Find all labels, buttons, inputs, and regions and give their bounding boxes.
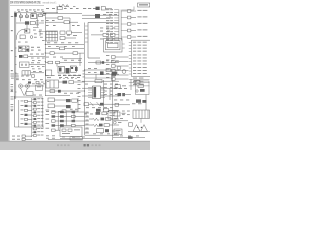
relay K1 — [31, 14, 37, 19]
resistor R14 — [89, 118, 119, 121]
fuse F1 — [19, 54, 45, 58]
wire — [85, 133, 120, 135]
footer label box — [70, 137, 83, 140]
fuse F3 — [25, 20, 44, 25]
capacitor C1 — [18, 27, 57, 42]
wire — [85, 70, 112, 79]
wire bus center — [84, 23, 86, 136]
resistor R4 — [60, 31, 82, 34]
wire — [85, 70, 119, 74]
page bottom shadow — [0, 141, 150, 142]
control box U4 — [46, 80, 59, 88]
wire — [60, 137, 100, 139]
wire — [78, 80, 120, 109]
fuse F2 — [95, 14, 117, 18]
page background — [0, 0, 150, 150]
label text — [46, 6, 79, 9]
terminal rows — [129, 78, 150, 86]
resistor R15 — [89, 124, 119, 133]
node labels row — [17, 9, 44, 12]
wire — [45, 42, 84, 47]
wire top run — [16, 13, 58, 15]
relay K10 — [85, 111, 118, 133]
pin labels column — [106, 9, 119, 43]
resistor column right — [121, 10, 147, 39]
label text — [16, 79, 44, 83]
shield box U2 — [104, 39, 125, 53]
heater grid box — [133, 110, 150, 118]
ecu outline — [85, 23, 119, 59]
relay K6 — [83, 60, 120, 77]
wire loop — [136, 81, 150, 95]
relay K9 — [96, 109, 119, 112]
ic U5 — [88, 80, 105, 110]
label text — [83, 8, 96, 9]
wire — [113, 136, 145, 139]
title text — [10, 0, 57, 4]
transistor Q2 — [141, 125, 148, 132]
connector grid J3 — [46, 31, 58, 41]
note text — [11, 58, 45, 79]
motor M1 — [18, 84, 44, 88]
resistor bank R20-R24 — [46, 110, 85, 132]
bottom margin strip — [0, 142, 150, 151]
resistor bank R10-R17 — [21, 98, 44, 136]
label text — [113, 111, 141, 127]
label box — [122, 3, 150, 10]
connector cluster — [115, 66, 126, 74]
relay K12 — [25, 29, 42, 33]
label text — [100, 28, 115, 32]
wire — [45, 90, 84, 96]
wire — [11, 95, 44, 100]
relay K5 — [96, 7, 113, 10]
wire bend — [16, 29, 25, 40]
wire trunk — [119, 10, 121, 41]
left margin strip — [0, 0, 10, 142]
wire bus right — [11, 98, 43, 127]
motor M2 — [11, 83, 46, 92]
transistor Q1 — [133, 125, 140, 132]
resistor R2 — [57, 4, 69, 13]
resistor R3 — [45, 17, 70, 20]
relay K2 — [19, 46, 41, 52]
label text — [100, 38, 115, 41]
switch S1 — [16, 71, 44, 77]
label text — [46, 57, 82, 59]
label text — [46, 20, 80, 26]
terminal strip — [46, 75, 81, 78]
wire — [82, 15, 119, 18]
wire — [114, 127, 150, 135]
wire bus left — [14, 12, 16, 100]
terminal post — [11, 13, 17, 17]
wire — [16, 18, 27, 29]
capacitor C2 — [45, 18, 78, 31]
wire split — [21, 85, 43, 96]
relay K8 — [48, 98, 66, 108]
relay K7 — [118, 93, 132, 96]
ecu connector U3 — [129, 40, 150, 77]
relay K3 — [20, 62, 46, 67]
label text — [114, 85, 127, 89]
resistor R5 — [38, 14, 78, 40]
svg-text:2004 SYSTEM WIRING DIAGRAMS AI: 2004 SYSTEM WIRING DIAGRAMS AIR COND. — [10, 1, 41, 5]
ground bus outline — [15, 96, 45, 137]
resistor R7 — [45, 52, 84, 55]
page navigation marks — [57, 144, 101, 146]
resistor R13 — [84, 103, 119, 106]
resistor R6 — [45, 47, 84, 50]
resistor R11 — [59, 81, 85, 84]
diode D1 — [20, 33, 43, 38]
wire bus center-left — [44, 13, 46, 96]
junction box — [46, 127, 82, 140]
junction dots — [15, 44, 85, 93]
wire — [131, 79, 146, 110]
title underline — [10, 4, 44, 6]
relay K4 — [45, 60, 82, 64]
resistor R8 — [91, 33, 115, 36]
label text — [82, 81, 119, 95]
wire bus right-mid — [112, 78, 114, 140]
wire — [45, 12, 82, 14]
connector J2 — [26, 15, 29, 18]
connector pins — [12, 135, 32, 140]
label text — [84, 113, 93, 116]
label text — [86, 106, 113, 109]
svg-text:manual circuit 1: manual circuit 1 — [43, 0, 57, 4]
connector J1 — [20, 15, 23, 18]
grid reference text — [11, 30, 13, 111]
resistor R12 — [66, 98, 78, 112]
resistor R1 — [39, 13, 47, 17]
label text — [46, 109, 78, 113]
transformer T1 — [46, 53, 80, 79]
sensor B1 — [115, 103, 141, 106]
sensor rows — [106, 55, 129, 80]
label text — [114, 99, 146, 102]
